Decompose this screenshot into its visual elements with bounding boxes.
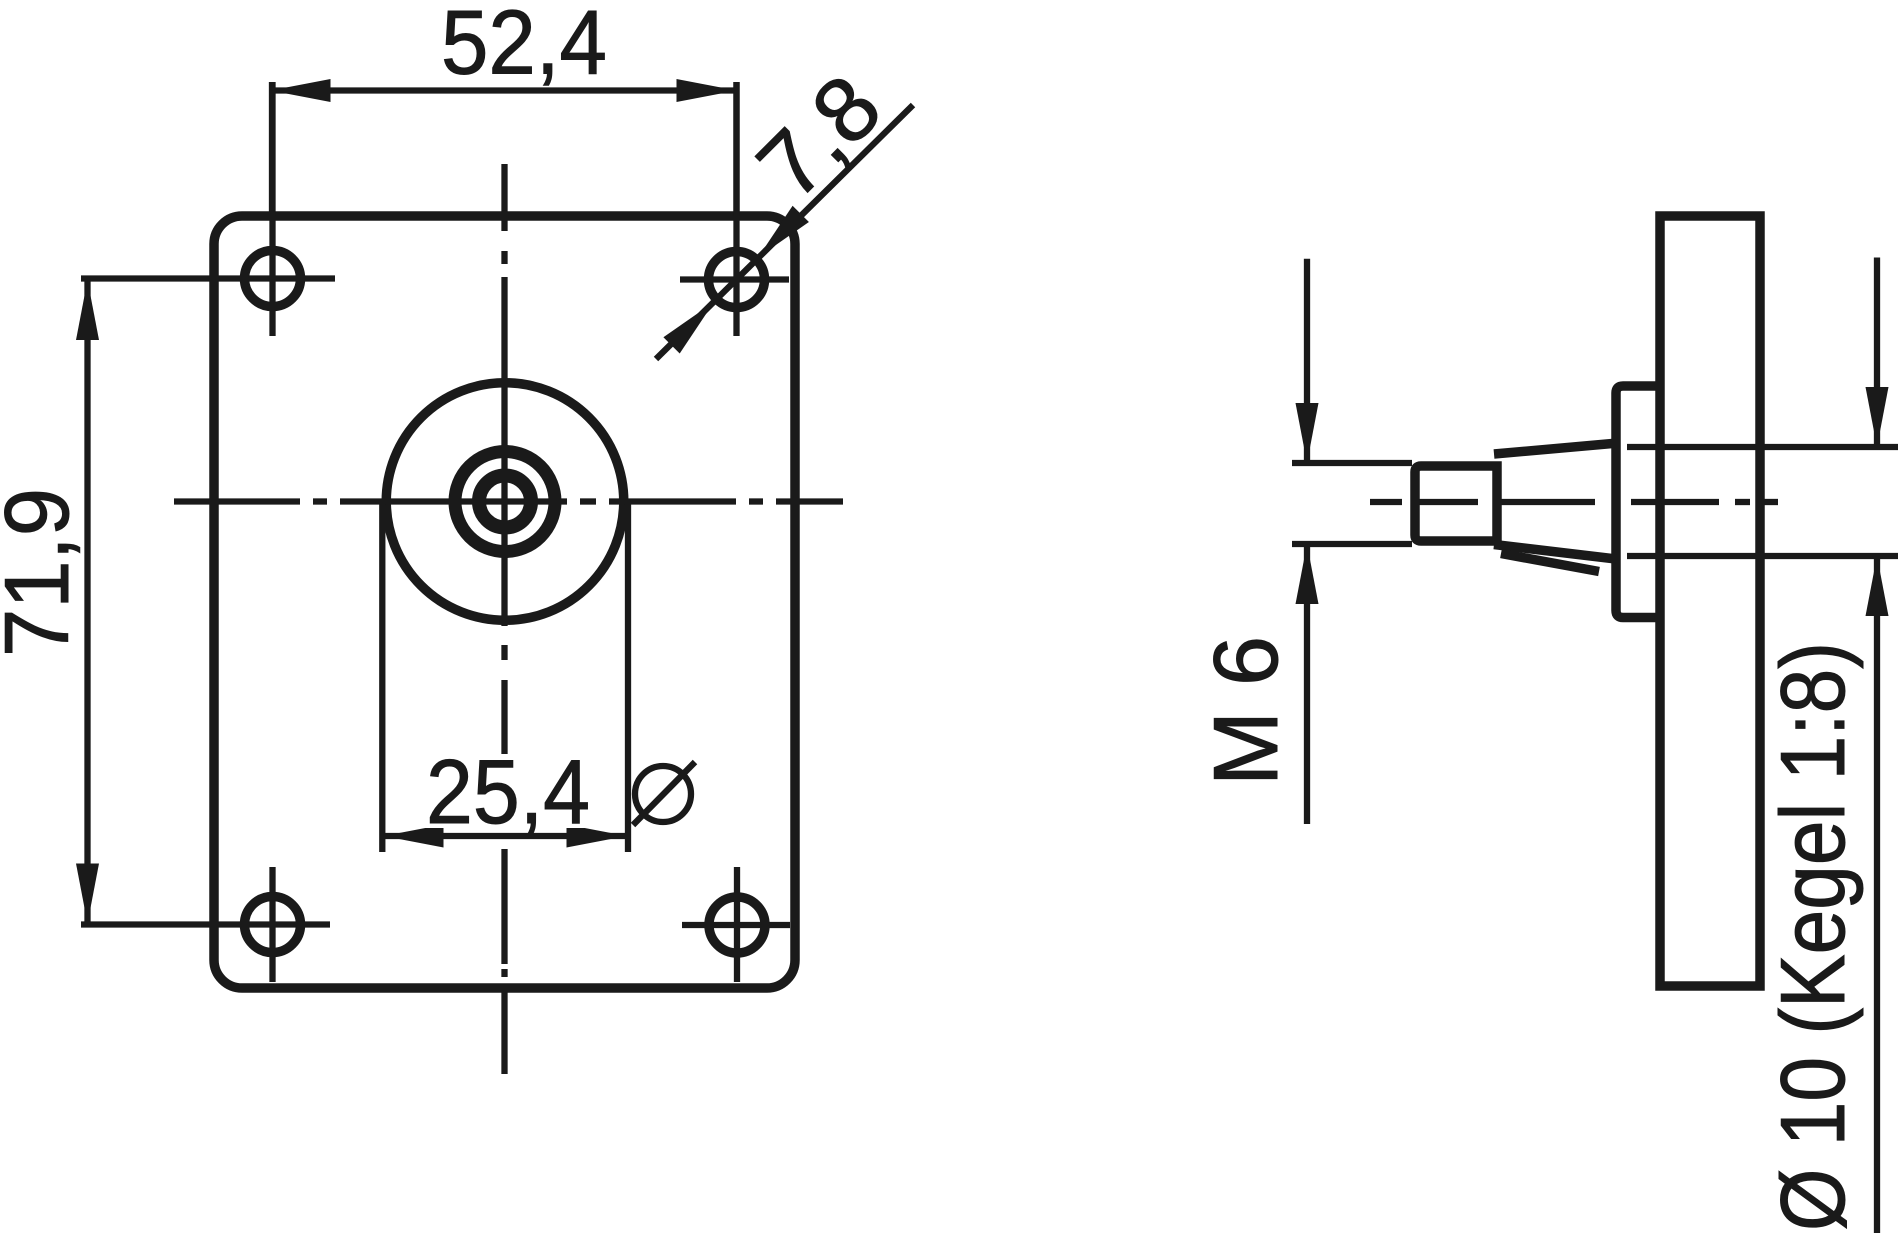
flange plate front view outline: [214, 216, 795, 988]
dimension 71,9 arrows: [76, 280, 99, 924]
crosshair hole bottom-right: [682, 867, 790, 982]
threaded stub M6: [1415, 466, 1497, 541]
mounting hole top-right: [709, 252, 765, 308]
taper cone bottom edge: [1494, 545, 1616, 560]
hub boss behind plate: [1616, 386, 1664, 618]
M6 dimension line upper: [1304, 259, 1310, 462]
svg-text:M 6: M 6: [1196, 636, 1297, 786]
dimension 25,4 arrows: [384, 825, 627, 848]
dimension 71,9 lines: [84, 280, 90, 924]
M6 arrows: [1296, 403, 1319, 604]
pilot ring inner: [479, 476, 531, 528]
crosshair hole bottom-left: [81, 867, 330, 982]
mounting hole bottom-right: [709, 897, 765, 953]
M6 extension lines: [1292, 463, 1412, 544]
diameter 10 dimension line upper: [1874, 258, 1880, 446]
diameter symbol after 25,4: [633, 762, 695, 825]
diameter 10 dimension line lower: [1874, 558, 1880, 1233]
diameter 10 arrows: [1866, 387, 1889, 616]
side view flange plate: [1660, 216, 1760, 986]
side view center line: [1370, 499, 1778, 505]
pilot ring outer: [455, 452, 555, 552]
svg-text:52,4: 52,4: [441, 0, 607, 94]
dimension 25,4 extension lines: [382, 500, 628, 852]
svg-text:25,4: 25,4: [426, 742, 590, 843]
svg-text:7,8: 7,8: [739, 56, 901, 218]
crosshair hole top-left: [81, 82, 335, 336]
crosshair hole top-right: [680, 82, 789, 336]
center bore large circle: [386, 383, 624, 621]
leader line 7,8: [656, 105, 913, 359]
mounting hole bottom-left: [245, 897, 301, 953]
leader arrows 7,8: [663, 206, 809, 354]
dimension 52,4 arrows: [271, 79, 737, 102]
svg-text:71,9: 71,9: [0, 488, 88, 657]
vertical center line front view: [501, 164, 507, 1074]
taper cone top edge: [1494, 443, 1618, 454]
horizontal center line front view: [174, 498, 843, 504]
mounting hole top-left: [245, 251, 301, 307]
diameter 10 extension lines: [1627, 447, 1898, 556]
svg-text:Ø 10 (Kegel 1:8): Ø 10 (Kegel 1:8): [1763, 642, 1864, 1231]
dimension 52,4 lines: [271, 82, 737, 216]
taper thread relief line: [1501, 554, 1599, 572]
M6 dimension line lower: [1304, 545, 1310, 824]
white mask behind 25,4 text: [424, 754, 591, 828]
